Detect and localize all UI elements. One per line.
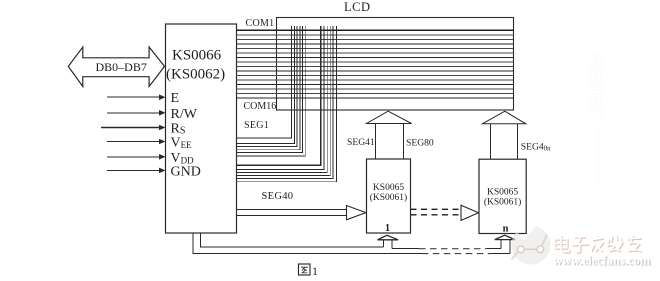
svg-text:www.elecfans.com: www.elecfans.com <box>553 254 651 268</box>
wire arrow VEE input <box>107 141 160 143</box>
COM row wires COM1-COM16 <box>237 30 514 98</box>
svg-text:DB0–DB7: DB0–DB7 <box>96 60 147 74</box>
feedback arrow under driver n <box>495 235 515 239</box>
wire arrow GND input <box>107 169 160 171</box>
big arrow driver n to LCD <box>482 111 525 124</box>
SEG wire fan group 1 (SEG1..) <box>237 26 306 156</box>
shaft wires under driver 1 <box>383 240 385 247</box>
wire controller to driver1 feedback (upper) <box>200 233 383 247</box>
feedback arrow under driver 1 <box>378 235 399 240</box>
LCD panel block <box>277 18 514 111</box>
SEG40 bus wires to driver 1 <box>237 209 347 215</box>
svg-text:COM16: COM16 <box>244 101 277 112</box>
svg-text:n: n <box>503 224 509 235</box>
svg-text:SEG40: SEG40 <box>262 191 294 202</box>
SEG40n wire (driver n right output) <box>516 124 518 159</box>
svg-text:(KS0062): (KS0062) <box>166 67 225 83</box>
cascade bus dashed wires driver1 to driver n <box>411 209 462 215</box>
wire arrow VDD input <box>107 156 160 158</box>
wire arrow RS input <box>101 127 160 129</box>
SEG41 wire (driver1 left output) <box>375 124 377 160</box>
bus arrowhead into driver 1 <box>347 206 366 220</box>
svg-text:www.elecfans.com: www.elecfans.com <box>595 128 604 190</box>
svg-text:1: 1 <box>312 264 318 276</box>
bus arrowhead into driver n <box>461 205 479 220</box>
bus arrow DB0-DB7 double-headed <box>68 47 164 87</box>
svg-text:SEG80: SEG80 <box>406 137 434 148</box>
driver U2 KS0065 block 1 <box>367 159 411 233</box>
svg-text:COM1: COM1 <box>246 18 275 29</box>
svg-text:SEG41: SEG41 <box>347 137 375 148</box>
svg-text:R/W: R/W <box>171 107 198 122</box>
driver U3 KS0065 block n <box>479 159 526 233</box>
wire arrow E input <box>107 96 160 98</box>
svg-text:E: E <box>171 91 180 106</box>
figure caption 图1 (hanzi drawn as paths) <box>299 264 311 275</box>
SEG80 wire (driver1 right output) <box>402 124 404 160</box>
wire arrow R/W input <box>107 112 160 114</box>
wire driver n left output <box>489 124 491 159</box>
svg-text:KS0065: KS0065 <box>487 188 518 198</box>
svg-text:LCD: LCD <box>344 0 371 14</box>
svg-text:(KS0061): (KS0061) <box>370 192 407 203</box>
SEG wire fan group 2 (..SEG40) <box>237 26 337 182</box>
shaft wires under driver n <box>500 240 502 249</box>
svg-text:SEG1: SEG1 <box>244 120 269 131</box>
watermark logo circle <box>511 226 550 264</box>
dashed wire driver1 to driver n (upper feedback) <box>392 248 419 250</box>
svg-text:GND: GND <box>171 164 201 179</box>
svg-text:KS0065: KS0065 <box>373 183 404 193</box>
svg-text:1: 1 <box>385 223 390 234</box>
watermark text dianzifashaoyou (5 hanzi, embossed) <box>556 236 642 253</box>
controller U1 KS0066 block <box>166 24 237 233</box>
faint side watermark <box>590 55 604 190</box>
svg-text:KS0066: KS0066 <box>172 48 222 64</box>
wire controller to driver n feedback (lower) <box>193 233 422 254</box>
big arrow driver1 to LCD <box>366 111 411 123</box>
svg-text:(KS0061): (KS0061) <box>484 197 521 208</box>
